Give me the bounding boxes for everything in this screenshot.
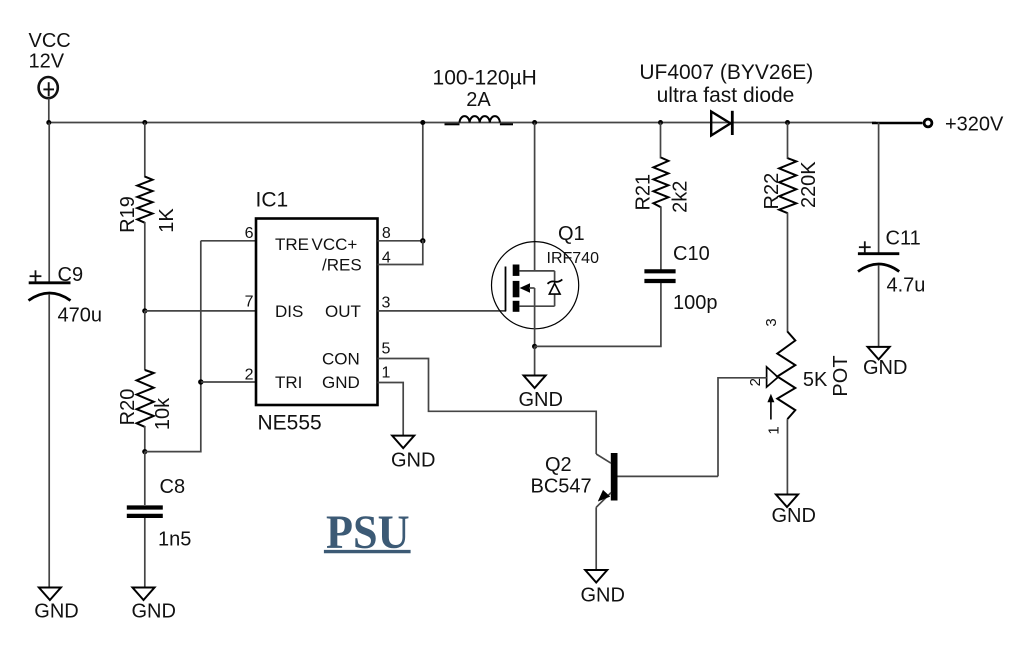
svg-text:GND: GND [519, 389, 563, 411]
svg-text:1: 1 [382, 365, 391, 382]
svg-text:12V: 12V [29, 51, 65, 73]
svg-text:C10: C10 [673, 243, 710, 265]
svg-text:1K: 1K [156, 208, 178, 233]
svg-text:2k2: 2k2 [669, 181, 691, 213]
svg-text:GND: GND [581, 585, 625, 607]
junction dot Q1 source [532, 344, 537, 349]
junction dot TRI wire [198, 379, 203, 384]
wire pin 4 [378, 240, 423, 265]
svg-text:2: 2 [245, 367, 254, 384]
junction dot R19 at bus [142, 120, 147, 125]
transistor Q1 IRF740 MOSFET [491, 242, 578, 347]
ground C8 [132, 588, 176, 623]
svg-text:GND: GND [863, 357, 907, 379]
svg-text:GND: GND [772, 505, 816, 527]
node +320V terminal [924, 119, 932, 127]
capacitor C10 [644, 271, 675, 281]
svg-text:R21: R21 [633, 174, 655, 211]
svg-text:4.7u: 4.7u [887, 275, 926, 297]
inductor 100-120uH 2A [445, 116, 514, 124]
transistor Q2 BC547 [596, 453, 718, 507]
svg-text:7: 7 [245, 294, 254, 311]
svg-text:100p: 100p [673, 292, 718, 314]
wire pin 1 GND [378, 383, 404, 436]
svg-text:5: 5 [382, 341, 391, 358]
resistor R21 [653, 158, 668, 208]
wire Q2 emitter to GND [595, 507, 597, 570]
svg-text:UF4007 (BYV26E): UF4007 (BYV26E) [639, 61, 813, 84]
op-amp U1 IC1 NE555 box [256, 219, 378, 406]
svg-text:1: 1 [765, 426, 782, 434]
svg-text:100-120µH: 100-120µH [433, 67, 537, 90]
svg-text:/RES: /RES [322, 256, 362, 275]
wire Q2 base to wiper [718, 378, 767, 477]
ground Q2 emitter [581, 570, 625, 607]
wire R21 to C10 [660, 207, 662, 270]
capacitor C8 [127, 508, 163, 516]
svg-text:GND: GND [322, 373, 360, 392]
wire C8 node down [144, 452, 146, 505]
wire C9 to GND [48, 294, 50, 588]
wire bus right black segment to +320V terminal [872, 122, 923, 125]
wire pin 3 OUT to gate [378, 310, 507, 312]
svg-text:IC1: IC1 [256, 189, 289, 212]
resistor R20 [137, 370, 154, 427]
svg-text:C9: C9 [58, 264, 84, 286]
junction dot inductor right / Q1 drain [532, 120, 537, 125]
label PSU title [324, 506, 411, 559]
wire R19 to DIS node [144, 222, 146, 311]
svg-text:CON: CON [322, 350, 360, 369]
wire pin 2 [201, 381, 256, 383]
capacitor C11 [858, 241, 899, 271]
capacitor C9 [29, 270, 71, 300]
svg-text:GND: GND [34, 601, 78, 623]
svg-text:5K: 5K [803, 369, 828, 391]
svg-text:R20: R20 [117, 389, 139, 426]
ground C9 [34, 588, 78, 623]
svg-text:NE555: NE555 [258, 412, 322, 435]
resistor R19 [137, 177, 152, 223]
junction dot pin8 at bus [420, 120, 425, 125]
svg-text:POT: POT [830, 355, 852, 396]
svg-text:+320V: +320V [945, 114, 1004, 136]
svg-text:8: 8 [382, 225, 391, 242]
junction dot R21 at bus [658, 120, 663, 125]
svg-text:220K: 220K [798, 161, 820, 208]
svg-text:R22: R22 [761, 173, 783, 210]
svg-text:TRE: TRE [275, 235, 309, 254]
wire bus to Q1 drain [534, 123, 536, 271]
svg-text:IRF740: IRF740 [547, 250, 600, 267]
svg-text:C8: C8 [160, 476, 186, 498]
pot wiper arrow [767, 367, 778, 387]
wire DIS node to R20 [144, 311, 146, 370]
svg-text:DIS: DIS [275, 302, 303, 321]
wire main top bus [49, 122, 876, 124]
wire bus to R22 [787, 123, 789, 160]
svg-text:C11: C11 [886, 228, 921, 250]
wire C11 to GND [878, 265, 880, 347]
svg-text:6: 6 [245, 225, 254, 242]
svg-text:2: 2 [747, 378, 764, 386]
ground POT [772, 495, 816, 528]
wire Q1 source to C10 bottom [535, 283, 661, 346]
wire Q1 source to GND [534, 346, 536, 375]
ground C11 [863, 347, 907, 379]
svg-text:R19: R19 [117, 196, 139, 233]
wire bus to R21 [660, 123, 662, 159]
svg-text:OUT: OUT [325, 302, 361, 321]
ground Q1 source [519, 376, 563, 412]
svg-text:Q1: Q1 [558, 223, 585, 245]
svg-text:VCC+: VCC+ [312, 235, 358, 254]
svg-text:3: 3 [382, 295, 391, 312]
wire DIS node to pin 7 [145, 310, 256, 312]
svg-text:TRI: TRI [275, 373, 302, 392]
junction dot DIS node [142, 308, 147, 313]
svg-text:GND: GND [132, 601, 176, 623]
resistor R22 [779, 158, 796, 213]
svg-text:3: 3 [763, 318, 780, 326]
svg-text:VCC: VCC [29, 30, 71, 52]
svg-text:10k: 10k [152, 397, 174, 430]
wire R22 to POT [787, 213, 789, 333]
svg-text:1n5: 1n5 [158, 529, 191, 551]
svg-text:BC547: BC547 [531, 476, 592, 498]
wire bus to R19 [144, 123, 146, 178]
potentiometer POT 5K [777, 332, 795, 420]
wire pin 8 [378, 123, 423, 241]
svg-text:Q2: Q2 [545, 454, 572, 476]
wire pin 6 [201, 240, 256, 242]
pot adjustment arrow [767, 394, 774, 420]
ground IC pin 1 [391, 436, 435, 472]
svg-text:470u: 470u [58, 305, 103, 327]
wire POT to GND [786, 419, 788, 494]
svg-text:ultra fast diode: ultra fast diode [657, 84, 795, 107]
junction dot R20/C8 node [142, 449, 147, 454]
wire C8 node to TRI vertical [145, 241, 201, 452]
wire bus to C11 [878, 123, 880, 253]
wire bus to C9 [48, 123, 50, 282]
wire VCC to bus [48, 98, 50, 122]
diode UF4007 [711, 111, 732, 136]
junction dot R22 at bus [785, 120, 790, 125]
node VCC terminal [39, 77, 58, 98]
svg-text:2A: 2A [466, 89, 491, 111]
junction dot VCC/C9 at bus [46, 120, 51, 125]
wire R20 to C8 node [144, 426, 146, 452]
svg-text:GND: GND [391, 450, 435, 472]
junction dot pin8/pin4 [420, 238, 425, 243]
wire C8 to GND [144, 518, 146, 588]
wire pin 5 CON to Q2 collector [378, 359, 597, 455]
